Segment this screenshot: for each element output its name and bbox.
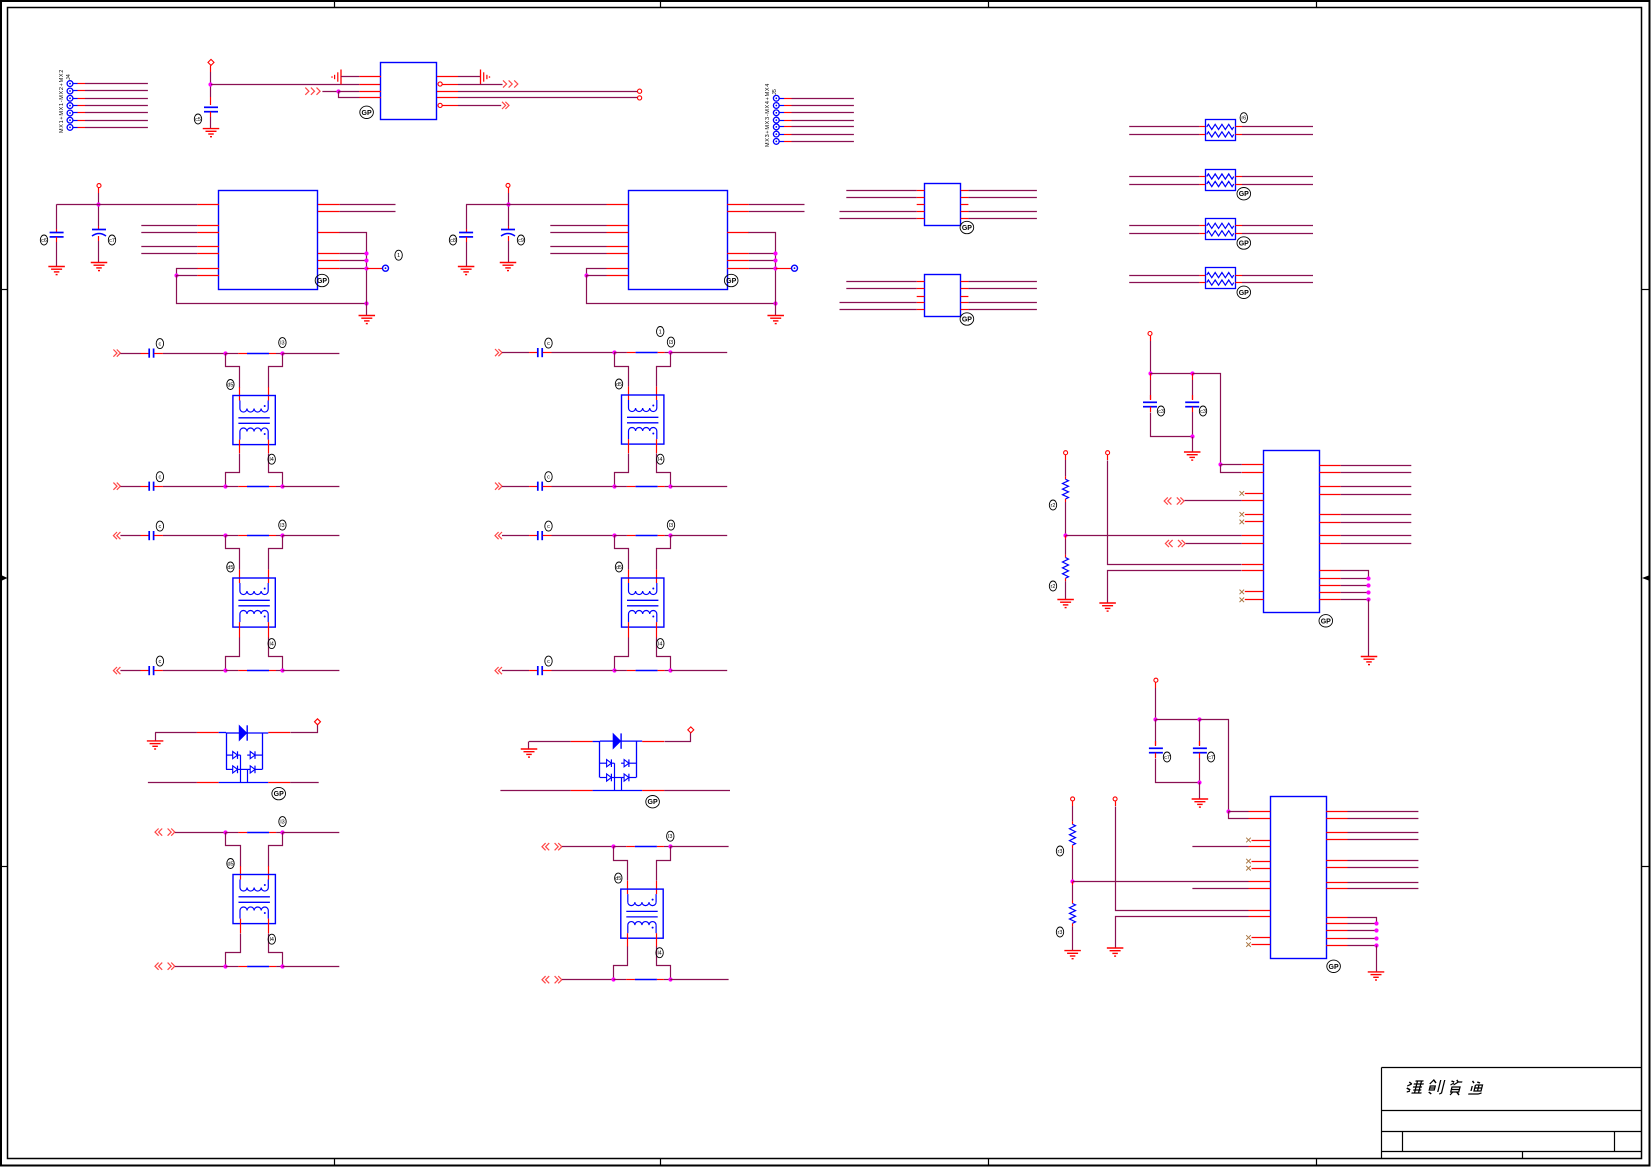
capacitor T2 top series: [149, 531, 153, 540]
pin stub U5 R3: [961, 296, 969, 298]
diode array D1 center drop B: [247, 769, 249, 782]
wire node B to U1 pin3: [338, 91, 359, 93]
capacitor T1 top series: [149, 349, 153, 358]
wire D1 bottom right: [290, 782, 319, 784]
pin stub U5 L1: [917, 281, 925, 283]
connector J1 pin 7 lead: [73, 127, 78, 129]
svg-text:r2: r2: [1051, 503, 1056, 509]
D1 stub: [268, 782, 290, 784]
ground below R4: [1064, 951, 1081, 959]
cap stub: [154, 670, 163, 672]
svg-text:GP: GP: [317, 278, 327, 285]
cap stub: [543, 486, 552, 488]
wire T6 inline lead2: [664, 846, 670, 848]
junction T4 top-right: [668, 350, 672, 354]
pin stub J6 rb: [1326, 945, 1347, 947]
wire T6 bot-right step: [657, 947, 671, 980]
pin stub J6 pin8: [1249, 888, 1271, 890]
wire T4 bottom out: [671, 486, 727, 488]
wire T1 inline lead2: [276, 353, 282, 355]
ground below C1: [203, 129, 220, 137]
xfmr pin stub: [656, 622, 658, 638]
wire T6 bot-left step: [614, 947, 628, 980]
wire T4 top out: [671, 352, 727, 354]
cap stub: [154, 486, 163, 488]
resistor R3 (J6 bias): [1070, 824, 1076, 845]
border zone tick left 1: [1, 289, 8, 291]
title block company logo glyph 2: [1427, 1080, 1444, 1094]
inline stub: [627, 352, 636, 354]
ground below J6 caps: [1192, 799, 1209, 807]
wire T5 inline lead: [614, 535, 627, 537]
wire J1 pin 1 net: [85, 83, 148, 85]
designator GP of RP3: [1237, 237, 1251, 249]
diode D1 row1 small diode right: [247, 751, 262, 759]
junction U3 r6 bus: [773, 266, 777, 270]
diode D2 D-big: [600, 733, 642, 748]
junction T2 top-left: [223, 533, 227, 537]
wire J3 right out: [1341, 465, 1412, 467]
port >> T4 top: [495, 349, 502, 356]
connector J1 pin 7 stub: [78, 127, 86, 129]
border zone tick right 1: [1642, 289, 1650, 291]
xfmr pin stub: [268, 387, 270, 400]
wire T2 inline lead: [226, 535, 239, 537]
wire U3 r5 to bus: [749, 260, 776, 262]
inline stub: [269, 966, 276, 968]
svg-text:d5: d5: [616, 565, 622, 571]
pin stub U3 r3: [727, 232, 749, 234]
wire J3 bus to ground: [1368, 600, 1370, 657]
resistor R2 label: [1049, 581, 1056, 591]
inline stub: [627, 535, 636, 537]
svg-text:GP: GP: [962, 317, 972, 324]
inline stub: [657, 846, 664, 848]
wire J2 pin 5 net: [792, 126, 854, 128]
capacitor C10 stub3: [1150, 407, 1152, 412]
pin stub U2 p5: [197, 253, 219, 255]
wire T5 cap to junction b: [552, 670, 615, 672]
wire U1 pin9 out: [458, 105, 501, 107]
op-amp U1 body: [381, 63, 437, 120]
resistor RP1-b: [1207, 132, 1234, 137]
wire T2 top-right step: [269, 536, 283, 570]
pin stub J6 right: [1326, 867, 1347, 869]
wire T2 inline lead2: [276, 535, 282, 537]
pin stub U1 pin9: [442, 105, 458, 107]
pin stub U4 R2: [961, 197, 969, 199]
svg-text:c: c: [159, 342, 162, 348]
wire T1 top out: [282, 353, 339, 355]
connector J1 pin 2 circle: [67, 88, 73, 94]
wire RP3 right: [1242, 225, 1313, 227]
capacitor C13 stub2: [1199, 753, 1201, 758]
wire D2 bottom left: [500, 790, 570, 792]
wire U2 bus to ground: [366, 304, 368, 316]
pin stub J3 right: [1320, 486, 1341, 488]
wire port to junction node B: [322, 91, 338, 93]
svg-text:r3: r3: [1058, 930, 1063, 936]
wire J3 rb to bus: [1341, 599, 1369, 601]
capacitor T4 bottom series: [538, 482, 542, 491]
svg-text:r6: r6: [1241, 116, 1246, 122]
wire R2 to ground: [1065, 581, 1067, 599]
connector J2 pin 6 stub: [784, 134, 792, 136]
resistor RP3-a: [1207, 223, 1234, 228]
diode array D1 left rail: [226, 733, 228, 769]
inline stub: [269, 486, 276, 488]
capacitor C1 stub top: [210, 97, 212, 105]
xfmr pin stub: [268, 570, 270, 583]
resistor R1 label: [1049, 500, 1056, 510]
svg-text:l4: l4: [270, 457, 274, 463]
wire C2 to ground: [56, 242, 58, 267]
wire J2 pin 7 net: [792, 141, 854, 143]
xfmr pin stub: [656, 387, 658, 400]
pin stub J6 pin1: [1249, 811, 1271, 813]
pin stub U2 r6: [318, 268, 340, 270]
wire T3 bot-right step: [269, 934, 283, 967]
wire down to C4: [466, 204, 468, 229]
capacitor C5 stub: [508, 226, 510, 230]
inline stub: [238, 832, 247, 834]
ferrite/link T3 top inline: [247, 832, 269, 834]
wire U2 p6 loop: [177, 269, 198, 276]
designator GP of D2: [646, 796, 660, 808]
junction J3 capA top: [1148, 371, 1152, 375]
pin stub U4 L3: [917, 204, 925, 206]
pin stub U1 pin8: [437, 76, 458, 78]
wire T1 cap to junction b: [163, 486, 226, 488]
wire T3 top out: [283, 832, 340, 834]
port << T5 top: [495, 532, 502, 539]
pin stub U1 pin6: [437, 91, 458, 93]
ferrite/link T4 top inline: [636, 352, 658, 354]
wire J1 pin 5 net: [85, 112, 148, 114]
wire J6 right out: [1348, 867, 1419, 869]
pin stub J6 right: [1326, 811, 1347, 813]
wire D2 bottom right: [664, 790, 730, 792]
port OUT>>> right of U1: [503, 80, 518, 87]
ferrite/link T2 top inline: [247, 535, 269, 537]
diode array D1 top rail: [219, 732, 226, 734]
ground below C2: [48, 267, 65, 275]
capacitor T5 top series: [538, 531, 542, 540]
pin stub RP4: [1199, 275, 1205, 277]
wire J3 right out: [1341, 472, 1412, 474]
wire T1 cap to junction: [163, 353, 226, 355]
wire T3 top port to junction: [175, 832, 226, 834]
diode array D1 right rail: [262, 733, 264, 769]
ref label T1 top: [279, 338, 286, 348]
junction J6 pin1 node: [1226, 809, 1230, 813]
svg-text:c3: c3: [1200, 409, 1206, 415]
pin stub RP3: [1235, 233, 1242, 235]
power symbol at D1: [315, 719, 321, 725]
wire T3 bottom out: [283, 966, 340, 968]
junction R3/R4 J6: [1070, 879, 1074, 883]
junction T5 bot-right: [668, 668, 672, 672]
pin stub U3 r6 ext: [776, 268, 792, 270]
pin stub RP3: [1199, 233, 1205, 235]
pin stub J3 pin10: [1242, 570, 1264, 572]
svg-text:MX3+MX3-MX4+MX4: MX3+MX3-MX4+MX4: [765, 83, 771, 147]
diode array D2 bottom rail: [593, 790, 643, 792]
connector J2 pin 3 stub: [784, 112, 792, 114]
wire U5 R4: [968, 302, 1037, 304]
wire T5 bot port to cap: [502, 670, 529, 672]
wire to R3: [1072, 806, 1074, 821]
wire T1 bot-left step: [226, 454, 240, 487]
capacitor C10 label: [1157, 406, 1164, 416]
port << >> T3 top: [155, 829, 175, 836]
wire U4 R5: [968, 218, 1037, 220]
svg-text:l3: l3: [669, 523, 673, 529]
pin stub RP2: [1199, 184, 1205, 186]
pin stub U2 r6 ext: [367, 268, 383, 270]
connector J2 pin 1 lead: [779, 98, 784, 100]
port OUT>> right of U1: [502, 102, 509, 109]
svg-text:l4: l4: [658, 457, 662, 463]
pin stub U3 r6: [727, 268, 749, 270]
pin stub J6 right: [1326, 882, 1347, 884]
wire to J3 pin1: [1221, 464, 1242, 466]
pin stub U2 p6: [197, 268, 219, 270]
wire VDD down to cap junction J6: [1155, 688, 1157, 720]
D2 stub: [571, 790, 593, 792]
pin stub J3 pin1: [1242, 464, 1264, 466]
wire U5 L5: [840, 309, 917, 311]
junction U2 loop: [174, 273, 178, 277]
wire U5 L1: [846, 281, 916, 283]
svg-text:GP: GP: [274, 791, 284, 798]
ref label T5 pin: [657, 639, 664, 649]
IC U4 body: [925, 184, 961, 226]
inline stub: [269, 353, 276, 355]
pin stub J3 rb: [1320, 578, 1341, 580]
pin stub U5 L2: [917, 288, 925, 290]
wire D1 top: [155, 732, 197, 734]
stub: [1150, 336, 1152, 341]
wire T1 top port to cap: [120, 353, 140, 355]
D1 stub: [268, 732, 290, 734]
wire T5 bot-right step: [657, 638, 671, 671]
wire RP1 left: [1129, 134, 1199, 136]
inline stub: [238, 966, 247, 968]
junction J3 capB top: [1190, 371, 1194, 375]
wire caps to ground J3: [1192, 437, 1194, 452]
xfmr pin stub: [239, 622, 241, 638]
wire T6 bot port to junction: [562, 979, 614, 981]
wire pwr2 to J3 pin9: [1108, 461, 1242, 565]
junction T3 bot-left: [223, 964, 227, 968]
wire U3 r6 to bus: [749, 268, 776, 270]
connector J1 pin 3 stub: [78, 98, 86, 100]
net label below U3 bus: [657, 327, 664, 337]
pin stub J6 rb: [1326, 930, 1347, 932]
wire T4 top port to cap: [502, 352, 529, 354]
cap stub: [529, 352, 537, 354]
svg-text:GP: GP: [1239, 241, 1249, 248]
pin stub U1 pin4: [359, 97, 381, 99]
capacitor C4 stub: [466, 229, 468, 232]
pin stub U2 r2: [318, 211, 340, 213]
power symbol VDD (top-left): [208, 59, 214, 65]
junction R1/R2 J3: [1063, 533, 1067, 537]
port << >> T6 top: [542, 843, 562, 850]
wire into U2 p4: [141, 246, 197, 248]
ref label T5 top: [667, 520, 674, 530]
inline stub: [627, 486, 636, 488]
power symbol at R1 J3: [1064, 451, 1068, 455]
pin stub U3 p7: [607, 275, 629, 277]
no-connect x at J3 y599.8: [1240, 598, 1245, 603]
connector J2 pin 4 circle: [773, 117, 779, 123]
cap stub: [543, 352, 552, 354]
junction J6 gnd bus: [1374, 936, 1378, 940]
border zone tick top 1: [334, 1, 336, 8]
pin stub RP3: [1235, 225, 1242, 227]
wire cap junction row: [1150, 373, 1192, 375]
R1 stub: [1065, 476, 1067, 479]
wire bare to J6 pin8: [1192, 888, 1248, 890]
ref label T6 top: [667, 831, 674, 841]
port << >> T3 bottom: [155, 963, 175, 970]
ref label T6 pin: [656, 948, 663, 958]
designator GP of D1: [272, 787, 286, 799]
ferrite/link T4 bottom inline: [636, 486, 658, 488]
wire T5 cap to junction: [552, 535, 615, 537]
capacitor C3 label: [108, 235, 115, 245]
pin stub J3 pin9: [1242, 564, 1264, 566]
svg-text:GP: GP: [962, 225, 972, 232]
wire J3 rb to bus: [1341, 585, 1369, 587]
svg-text:GP: GP: [1239, 191, 1249, 198]
cap label T5 bottom: [545, 656, 552, 666]
diode D2 row2 small diode right: [621, 774, 636, 782]
pin stub U1 pin7: [442, 84, 458, 86]
connector J1 pin 5 lead: [73, 112, 78, 114]
designator of RP1: [1240, 113, 1247, 123]
svg-text:c: c: [547, 524, 550, 530]
svg-text:l3: l3: [669, 340, 673, 346]
designator GP of U3: [724, 274, 738, 286]
ground below U2 bus: [359, 316, 376, 324]
ground below J3 bus: [1361, 657, 1378, 665]
pin stub U2 p2: [197, 225, 219, 227]
wire VDD to U3 p1: [508, 204, 607, 206]
xfmr pin stub: [628, 387, 630, 400]
junction T4 top-left: [612, 350, 616, 354]
junction J3 gnd bus: [1366, 576, 1370, 580]
xfmr label T1: [227, 380, 234, 390]
pin stub RP4: [1235, 282, 1242, 284]
cap label T4 bottom: [545, 472, 552, 482]
wire J6 rb to bus: [1348, 930, 1377, 932]
wire T3 inline lead2: [276, 832, 282, 834]
border zone tick bottom 3: [988, 1159, 990, 1166]
wire T5 top-left step: [615, 536, 629, 570]
svg-text:c8: c8: [450, 238, 456, 244]
wire VDD branch to C2: [57, 204, 99, 206]
junction node VDD-A: [208, 82, 212, 86]
power symbol VDD at J3 caps: [1148, 332, 1152, 336]
xfmr pin stub: [627, 933, 629, 947]
wire C4 to ground: [466, 242, 468, 267]
junction T5 bot-left: [612, 668, 616, 672]
border centering arrow right: [1642, 575, 1650, 581]
capacitor C13: [1193, 748, 1207, 752]
capacitor C11: [1185, 402, 1199, 406]
junction U2 r4 bus: [364, 251, 368, 255]
connector J1 pin 6 circle: [67, 117, 73, 123]
cap label T2 top: [156, 521, 163, 531]
ground below C5: [500, 263, 517, 271]
title block outline: [1382, 1068, 1642, 1159]
pin stub J6 rb1: [1326, 917, 1347, 919]
wire T2 top port to cap: [120, 535, 140, 537]
wire U1 pin1: [341, 76, 359, 78]
junction T6 top-right: [668, 844, 672, 848]
ferrite/link T5 top inline: [636, 535, 658, 537]
border zone tick top 3: [988, 1, 990, 8]
diode D1 row2 small diode left: [226, 766, 247, 774]
pin stub J6 right: [1326, 839, 1347, 841]
title block company logo glyph 1: [1406, 1081, 1425, 1093]
designator GP of U2: [315, 274, 329, 286]
svg-text:1: 1: [397, 253, 400, 259]
xfmr pin stub: [628, 439, 630, 453]
no-connect x at J6 y840.0: [1246, 838, 1251, 843]
R4 stub2: [1072, 901, 1074, 904]
junction caps bottom J6: [1197, 780, 1201, 784]
pin stub U1 pin2: [359, 84, 381, 86]
power stub U3: [508, 188, 510, 193]
pin stub U3 p1: [607, 204, 629, 206]
capacitor C2 stub: [56, 229, 58, 232]
R3 stub: [1072, 821, 1074, 824]
junction U3 loop: [584, 273, 588, 277]
inline stub: [238, 535, 247, 537]
inline stub: [626, 846, 635, 848]
pin stub J3 right: [1320, 543, 1341, 545]
pin stub J3 nc: [1245, 521, 1264, 523]
wire T6 bottom out: [670, 979, 728, 981]
junction U2 bottom bus: [364, 301, 368, 305]
port IN>>> to U1 pin3: [305, 88, 320, 95]
diode array D2 left rail: [599, 741, 601, 777]
border zone tick top 2: [660, 1, 662, 8]
pin stub J3 right: [1320, 494, 1341, 496]
U1 pin7 bubble: [438, 82, 442, 86]
wire T6 inline lead b: [614, 979, 627, 981]
wire J6 bus to ground: [1376, 946, 1378, 972]
capacitor C12: [1149, 748, 1163, 752]
capacitor C10 stub: [1150, 374, 1152, 380]
wire T5 bot-left step: [615, 638, 629, 671]
wire T2 inline lead b: [226, 670, 239, 672]
wire D2 top: [529, 741, 571, 743]
wire U5 L2: [846, 288, 916, 290]
wire J3 right out: [1341, 522, 1412, 524]
ground below R2: [1057, 600, 1074, 608]
svg-text:c: c: [547, 659, 550, 665]
wire T1 top-right step: [269, 354, 283, 388]
D1 stub: [197, 782, 219, 784]
resistor RP2-a: [1207, 174, 1234, 179]
pin stub U3 p5: [607, 253, 629, 255]
svg-text:d5: d5: [227, 383, 233, 389]
